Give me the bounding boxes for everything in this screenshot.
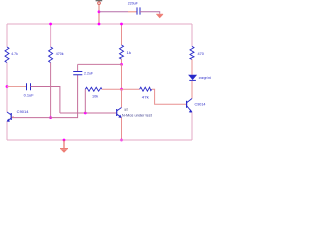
label 9 Volt (clipped at top) <box>96 0 103 1</box>
wire right branch upper (rail to 470) <box>191 24 193 46</box>
ground top symbol <box>156 14 163 18</box>
wire DUT emitter down to bottom rail <box>121 118 123 141</box>
wire 47k left lead <box>122 88 140 90</box>
svg-text:220uF: 220uF <box>128 0 138 5</box>
wire 220uF right lead to ground <box>140 12 160 14</box>
svg-text:2.2uF: 2.2uF <box>84 70 94 75</box>
resistor R3 1k body <box>120 45 124 59</box>
wire 0.1uF left lead <box>7 86 27 88</box>
svg-text:C9014: C9014 <box>195 102 207 107</box>
terminal 9V connector circle <box>98 2 101 5</box>
wire top rail VCC <box>7 23 192 25</box>
wire DUT collector net down from node <box>121 89 123 107</box>
node junction 470k on base wire <box>49 116 52 119</box>
label 4.7k <box>11 51 17 56</box>
resistor R5 47k body <box>140 87 152 91</box>
svg-text:470: 470 <box>198 51 205 56</box>
wire 1k lower lead to node B <box>121 59 123 64</box>
wire 1k branch upper (rail to 1k) <box>121 24 123 45</box>
svg-text:0.1uF: 0.1uF <box>24 93 35 98</box>
wire 47k to Q3 base <box>152 89 186 104</box>
svg-text:N-Mos under test: N-Mos under test <box>122 114 152 118</box>
svg-text:C9014: C9014 <box>17 109 30 114</box>
node junction 10k/47k/collector <box>120 88 123 91</box>
label 220uF <box>128 0 138 5</box>
label 470 <box>198 51 205 56</box>
wire LED to Q3 collector <box>191 81 193 99</box>
node junction DUT emitter at bottom rail <box>120 139 123 142</box>
node junction ground tap on bottom rail <box>63 139 66 142</box>
label C9014 left <box>17 109 30 114</box>
resistor R4 10k body <box>85 87 102 91</box>
wire 0.1uF right lead to corner then down to DUT base wire <box>31 87 60 114</box>
wire 220uF left lead <box>99 11 137 13</box>
svg-text:47k: 47k <box>142 94 149 99</box>
wire 10k left lead down to base wire <box>84 89 86 113</box>
wire ground stem bottom <box>63 140 65 148</box>
label 47k <box>142 94 149 99</box>
label WT <box>124 108 128 112</box>
label 0.1uF <box>24 93 35 98</box>
transistor Q1 C9014 left <box>6 112 14 122</box>
node junction 10k tap on DUT base wire <box>84 112 87 115</box>
wire Q1 emitter down to bottom rail corner <box>6 121 8 140</box>
svg-text:1k: 1k <box>127 50 132 55</box>
node junction B (1k/2.2uF/collector net) <box>120 63 123 66</box>
svg-text:4.7k: 4.7k <box>11 51 17 56</box>
svg-text:470k: 470k <box>56 51 64 56</box>
resistor R1 4.7k body <box>5 47 9 63</box>
node junction at 0.1uF tap <box>6 85 9 88</box>
diode D1 LED <box>188 75 197 81</box>
ground bottom symbol <box>60 148 68 153</box>
label C9014 right <box>195 102 207 107</box>
resistor R2 470k body <box>49 47 53 63</box>
svg-text:10k: 10k <box>92 94 98 99</box>
wire 470k lower lead to Q1 base wire <box>50 63 52 118</box>
transistor Q2 device under test <box>116 108 122 119</box>
label N-Mos under test <box>122 114 152 118</box>
wire node B down to 10k node <box>121 64 123 89</box>
svg-text:WT: WT <box>124 108 128 112</box>
wire 10k right lead to node <box>102 88 122 90</box>
resistor R6 470 body <box>190 46 194 59</box>
label 470k <box>56 51 64 56</box>
label 2.2uF <box>84 70 94 75</box>
wire left branch upper (rail to 4.7k) <box>6 24 8 47</box>
capacitor C1 220uF plates <box>137 7 140 14</box>
wire 470 to LED <box>191 59 193 74</box>
wire bottom rail <box>7 139 192 141</box>
capacitor C3 2.2uF plates <box>73 72 82 75</box>
wire left branch lower (4.7k to Q1 collector) <box>6 63 8 112</box>
label 1k <box>127 50 132 55</box>
capacitor C2 0.1uF plates <box>27 83 31 90</box>
wire 470k branch upper (rail to 470k) <box>50 24 52 47</box>
wire 9V stem <box>98 4 100 24</box>
transistor Q3 C9014 right <box>186 99 192 113</box>
svg-text:orange led: orange led <box>199 76 211 80</box>
label 10k <box>92 94 98 99</box>
wire Q3 emitter down to bottom rail <box>191 112 193 140</box>
node junction 9V at rail <box>98 23 101 26</box>
node junction 1k at rail <box>120 23 123 26</box>
label orange led <box>199 76 211 80</box>
wire node B to 2.2uF top <box>78 64 122 71</box>
node junction 9V to 220uF <box>98 10 101 13</box>
wire Q1 base wire to 2.2uF corner <box>11 75 77 118</box>
node junction 470k at rail <box>49 23 52 26</box>
wire DUT base wire horizontal <box>60 112 116 114</box>
